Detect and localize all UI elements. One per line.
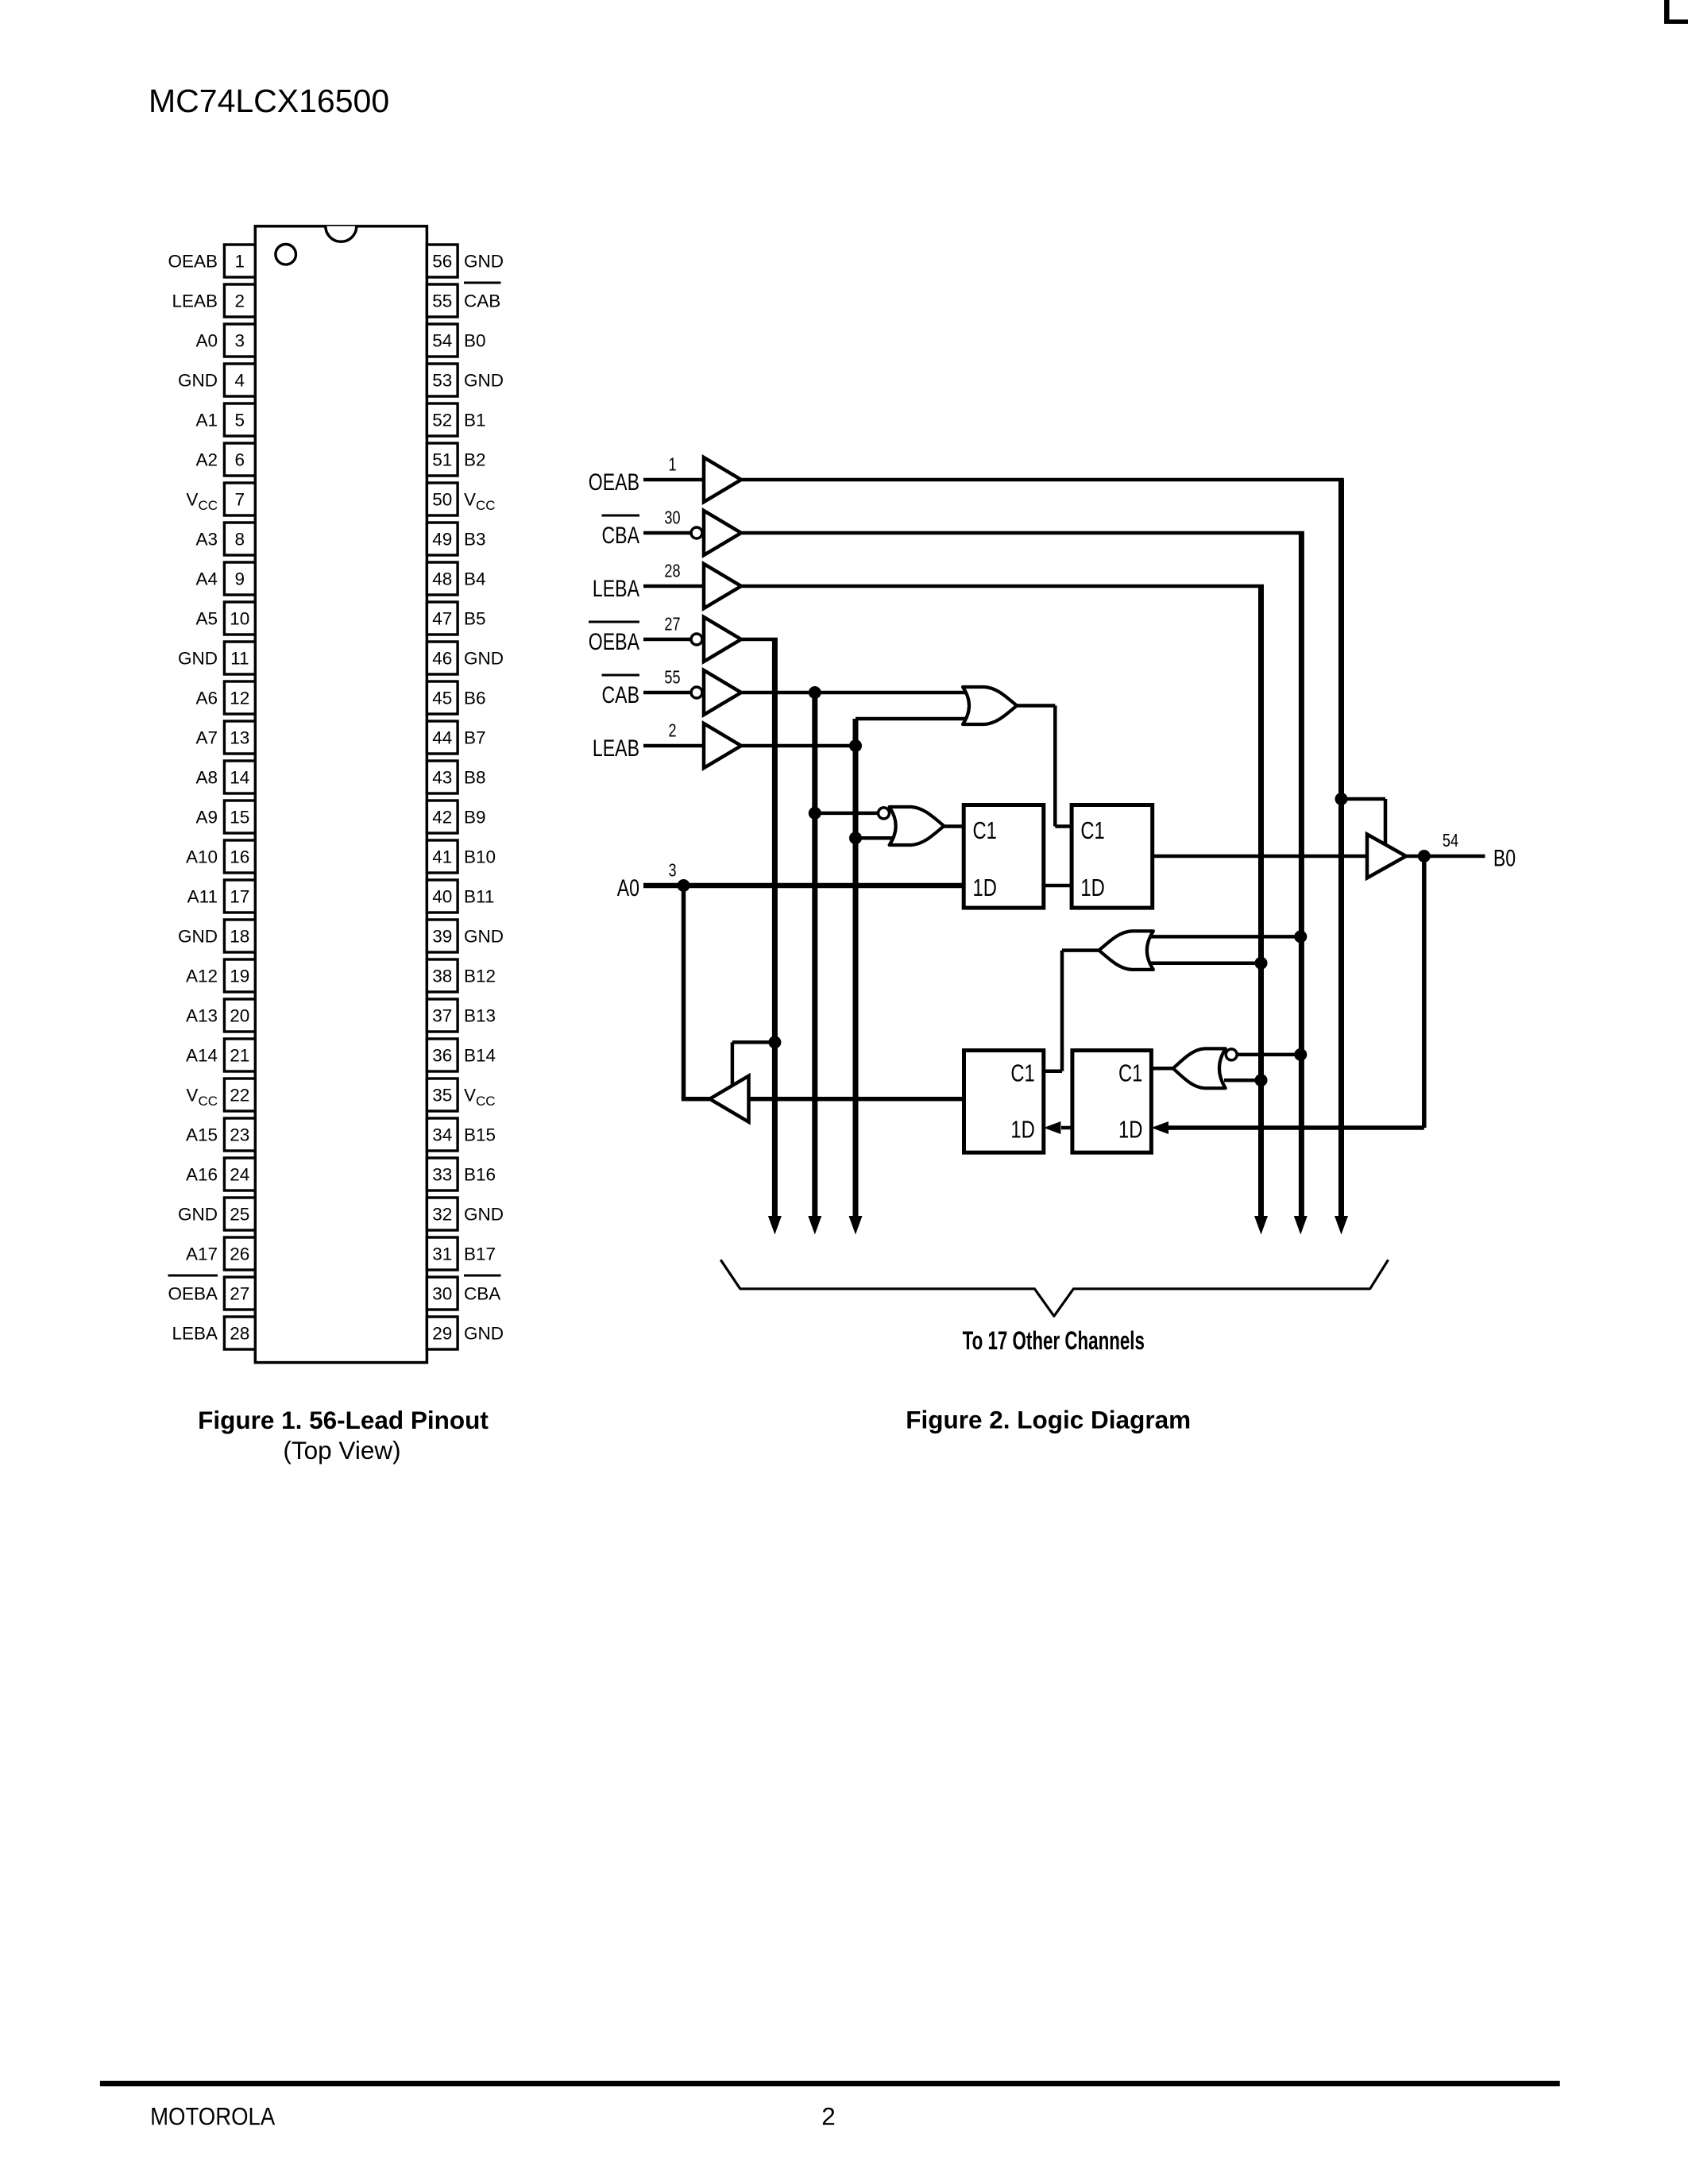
wire LEAB output horizontal (741, 744, 856, 748)
svg-text:B16: B16 (464, 1165, 496, 1185)
svg-text:18: 18 (230, 927, 249, 947)
svg-text:C1: C1 (1118, 1059, 1142, 1087)
pin 43 B8 (right) (427, 761, 485, 793)
wire LEBA vertical bus (1258, 586, 1264, 1219)
junction dot OEAB / output-enable branch (1335, 793, 1348, 805)
pin 10 A5 (left) (195, 602, 255, 635)
svg-text:CBA: CBA (464, 1284, 500, 1304)
svg-text:35: 35 (432, 1086, 452, 1106)
pin 49 B3 (right) (427, 523, 485, 555)
svg-text:VCC: VCC (186, 1086, 218, 1109)
pin 35 VCC (right) (427, 1078, 495, 1111)
pin 11 GND (left) (178, 642, 255, 674)
svg-text:VCC: VCC (464, 1086, 496, 1109)
svg-text:A5: A5 (195, 609, 218, 629)
svg-text:A4: A4 (195, 569, 218, 589)
wire G4 upper input from CBA bus (1238, 1053, 1301, 1057)
svg-text:CAB: CAB (602, 681, 639, 708)
svg-text:46: 46 (432, 649, 452, 669)
svg-text:26: 26 (230, 1244, 249, 1264)
svg-text:B6: B6 (464, 689, 486, 708)
pin 29 GND (right) (427, 1317, 504, 1349)
pin 42 B9 (right) (427, 801, 485, 833)
svg-text:A14: A14 (186, 1046, 218, 1066)
arrow CAB bus to other channels (808, 1216, 821, 1235)
junction dot OEBA / A-enable branch (768, 1036, 781, 1048)
wire LEAB to XNOR G2 lower input (856, 836, 902, 840)
svg-text:27: 27 (230, 1284, 249, 1304)
wire G4 lower input from LEBA bus (1224, 1078, 1261, 1082)
wire feedback to latch L4 1D (1151, 1121, 1423, 1134)
footer rule (100, 2081, 1560, 2086)
footer page number (821, 2102, 836, 2131)
arrow LEAB bus to other channels (849, 1216, 863, 1235)
svg-text:A13: A13 (186, 1006, 218, 1026)
svg-text:49: 49 (432, 530, 452, 550)
svg-text:A0: A0 (617, 874, 639, 901)
svg-text:25: 25 (230, 1205, 249, 1225)
svg-text:3: 3 (235, 331, 245, 351)
svg-text:21: 21 (230, 1046, 249, 1066)
svg-text:GND: GND (464, 927, 504, 947)
pin 32 GND (right) (427, 1198, 504, 1230)
svg-text:Figure 1. 56-Lead Pinout: Figure 1. 56-Lead Pinout (198, 1406, 489, 1434)
pin 34 B15 (right) (427, 1118, 496, 1151)
junction dot CBA to G3 (1294, 930, 1307, 943)
svg-text:24: 24 (230, 1165, 249, 1185)
junction dot LEAB to XNOR G2 (849, 832, 862, 844)
wire B0 output (1406, 855, 1485, 859)
wire CAB to XNOR G2 top input (815, 812, 879, 816)
wire G3 output to latch L3 C1 (1044, 951, 1099, 1071)
svg-text:A12: A12 (186, 967, 218, 986)
pin 50 VCC (right) (427, 483, 495, 515)
input buffer OEAB pin 1 (589, 454, 741, 502)
svg-text:A2: A2 (195, 450, 218, 470)
pin 3 A0 (left) (195, 324, 255, 357)
input buffer CAB pin 55 (602, 667, 742, 715)
svg-text:A6: A6 (195, 689, 218, 708)
svg-text:A11: A11 (187, 887, 218, 907)
svg-text:A17: A17 (186, 1244, 218, 1264)
svg-text:C1: C1 (1010, 1059, 1034, 1087)
output buffer A (tri-state, mirrored) (710, 1076, 749, 1122)
svg-text:B10: B10 (464, 847, 496, 867)
wire CAB output to OR gate G1 (741, 691, 977, 695)
wire CBA vertical bus (1299, 533, 1304, 1219)
wire CAB vertical bus (812, 693, 817, 1219)
arrow OEAB bus to other channels (1335, 1216, 1348, 1235)
svg-text:32: 32 (432, 1205, 452, 1225)
latch L2 (C1/1D) (1072, 805, 1153, 909)
svg-text:16: 16 (230, 847, 249, 867)
input buffer CBA pin 30 (602, 507, 742, 555)
svg-text:OEBA: OEBA (168, 1284, 218, 1304)
svg-text:B7: B7 (464, 728, 486, 748)
junction dot CAB to XNOR G2 (809, 807, 821, 820)
junction dot CAB branch (809, 686, 821, 699)
wire G4 output to latch L4 C1 (1151, 1067, 1172, 1071)
svg-text:B14: B14 (464, 1046, 496, 1066)
svg-text:1D: 1D (1118, 1116, 1142, 1144)
svg-text:A0: A0 (195, 331, 218, 351)
svg-text:A10: A10 (186, 847, 218, 867)
svg-text:9: 9 (235, 569, 245, 589)
pin 8 A3 (left) (195, 523, 255, 555)
input buffer OEBA pin 27 (589, 614, 741, 662)
svg-text:GND: GND (464, 1205, 504, 1225)
svg-text:1D: 1D (973, 874, 997, 901)
pin 30 CBA (right) (427, 1275, 500, 1310)
svg-text:55: 55 (664, 667, 680, 688)
wire LEAB vertical bus (853, 719, 859, 1219)
pin 21 A14 (left) (186, 1039, 255, 1071)
svg-text:LEAB: LEAB (172, 291, 218, 311)
arrow LEBA bus to other channels (1254, 1216, 1268, 1235)
svg-text:40: 40 (432, 887, 452, 907)
pin 17 A11 (left) (187, 880, 256, 913)
OR gate G1 (963, 687, 1017, 724)
svg-text:2: 2 (821, 2102, 836, 2131)
latch L1 (C1/1D) (964, 805, 1044, 909)
svg-text:55: 55 (432, 291, 452, 311)
OR gate G3 (mirrored) (1099, 931, 1153, 970)
bubble on G4 upper input (1226, 1049, 1237, 1060)
output buffer B (tri-state) (1367, 835, 1406, 878)
pin 28 LEBA (left) (172, 1317, 255, 1349)
svg-text:B12: B12 (464, 967, 496, 986)
wire A0 trunk to latch L1 1D (643, 883, 964, 889)
input buffer LEBA pin 28 (593, 561, 741, 608)
svg-text:11: 11 (230, 649, 249, 669)
svg-text:CAB: CAB (464, 291, 500, 311)
svg-text:2: 2 (668, 720, 676, 741)
junction dot LEBA to G4 (1255, 1074, 1268, 1086)
svg-text:A9: A9 (195, 808, 218, 828)
svg-text:43: 43 (432, 768, 452, 788)
pin 22 VCC (left) (186, 1078, 255, 1111)
svg-text:3: 3 (668, 860, 676, 881)
svg-text:50: 50 (432, 490, 452, 510)
svg-text:A8: A8 (195, 768, 218, 788)
pin 46 GND (right) (427, 642, 504, 674)
svg-text:4: 4 (235, 371, 245, 391)
svg-text:22: 22 (230, 1086, 249, 1106)
wire CBA output horizontal (741, 531, 1304, 535)
pin 19 A12 (left) (186, 959, 255, 992)
label B0 pin 54 (1443, 831, 1516, 871)
svg-text:52: 52 (432, 411, 452, 430)
pin 39 GND (right) (427, 920, 504, 952)
svg-text:48: 48 (432, 569, 452, 589)
wire OEBA output horizontal (741, 638, 778, 642)
svg-text:56: 56 (432, 252, 452, 272)
svg-text:A15: A15 (186, 1125, 218, 1145)
svg-text:30: 30 (432, 1284, 452, 1304)
svg-text:2: 2 (235, 291, 245, 311)
svg-text:B1: B1 (464, 411, 486, 430)
pin 38 B12 (right) (427, 959, 496, 992)
svg-text:29: 29 (432, 1324, 452, 1344)
svg-text:37: 37 (432, 1006, 452, 1026)
svg-text:B3: B3 (464, 530, 486, 550)
svg-text:Figure 2. Logic Diagram: Figure 2. Logic Diagram (906, 1406, 1191, 1434)
wire latch L4 to latch L3 1D (1044, 1121, 1072, 1134)
pin 31 B17 (right) (427, 1237, 496, 1270)
pin 23 A15 (left) (186, 1118, 255, 1151)
junction dot LEBA to G3 (1255, 957, 1268, 970)
brace To 17 Other Channels (720, 1260, 1388, 1316)
svg-text:OEAB: OEAB (589, 469, 639, 496)
svg-text:42: 42 (432, 808, 452, 828)
Figure 2 caption (906, 1406, 1191, 1434)
svg-text:MOTOROLA: MOTOROLA (150, 2103, 275, 2131)
pin 2 LEAB (left) (172, 284, 255, 317)
junction dot CBA to G4 (1294, 1048, 1307, 1061)
pin 12 A6 (left) (195, 681, 255, 714)
svg-text:23: 23 (230, 1125, 249, 1145)
svg-text:19: 19 (230, 967, 249, 986)
svg-text:B0: B0 (464, 331, 486, 351)
svg-text:GND: GND (464, 371, 504, 391)
pin 15 A9 (left) (195, 801, 255, 833)
svg-text:LEBA: LEBA (172, 1324, 218, 1344)
pin 7 VCC (left) (186, 483, 255, 515)
wire OEAB enable elbow to B buffer (1342, 799, 1386, 844)
svg-text:41: 41 (432, 847, 452, 867)
svg-text:1D: 1D (1010, 1116, 1034, 1144)
pin 44 B7 (right) (427, 721, 485, 754)
svg-text:45: 45 (432, 689, 452, 708)
svg-text:CBA: CBA (602, 522, 640, 549)
svg-text:B13: B13 (464, 1006, 496, 1026)
svg-text:C1: C1 (973, 816, 997, 844)
svg-text:GND: GND (178, 927, 218, 947)
pin 5 A1 (left) (195, 403, 255, 436)
svg-text:(Top View): (Top View) (283, 1436, 400, 1464)
wire latch L3 output (749, 1097, 964, 1102)
package notch (326, 226, 357, 242)
pin 1 OEAB (left) (168, 245, 255, 277)
svg-text:GND: GND (464, 1324, 504, 1344)
latch L4 (C1/1D mirrored) (1072, 1051, 1152, 1153)
arrow CBA bus to other channels (1294, 1216, 1308, 1235)
wire B0 feedback vertical (1422, 856, 1427, 1128)
XNOR gate G2 (bubbled input OR) (879, 807, 944, 845)
junction dot B0 feedback branch (1418, 850, 1431, 862)
Figure 1 caption line 2 (283, 1436, 400, 1464)
pin 41 B10 (right) (427, 840, 496, 873)
pin 20 A13 (left) (186, 999, 255, 1032)
svg-text:B2: B2 (464, 450, 486, 470)
svg-text:53: 53 (432, 371, 452, 391)
pin 48 B4 (right) (427, 562, 485, 595)
pin 25 GND (left) (178, 1198, 255, 1230)
svg-text:51: 51 (432, 450, 452, 470)
svg-text:B15: B15 (464, 1125, 496, 1145)
wire OEBA enable elbow to A buffer (732, 1042, 775, 1086)
wire LEAB to OR gate G1 lower input (856, 717, 977, 721)
svg-text:B5: B5 (464, 609, 486, 629)
svg-text:OEBA: OEBA (589, 628, 639, 655)
wire OEBA vertical bus (772, 639, 778, 1219)
svg-text:1: 1 (235, 252, 245, 272)
svg-text:GND: GND (464, 649, 504, 669)
pin 1 index dot (276, 245, 296, 265)
svg-text:1: 1 (668, 454, 676, 475)
pin 55 CAB (right) (427, 282, 500, 318)
latch L3 (C1/1D mirrored) (964, 1051, 1044, 1153)
IC package body (255, 226, 427, 1363)
svg-text:B17: B17 (464, 1244, 496, 1264)
wire latch L2 output to B buffer (1153, 855, 1367, 859)
svg-text:28: 28 (664, 561, 680, 581)
svg-text:7: 7 (235, 490, 245, 510)
svg-text:10: 10 (230, 609, 249, 629)
label To 17 Other Channels (963, 1326, 1145, 1355)
pin 52 B1 (right) (427, 403, 485, 436)
svg-text:5: 5 (235, 411, 245, 430)
svg-text:VCC: VCC (186, 490, 218, 514)
pin 56 GND (right) (427, 245, 504, 277)
pin 9 A4 (left) (195, 562, 255, 595)
pin 45 B6 (right) (427, 681, 485, 714)
svg-text:B9: B9 (464, 808, 486, 828)
corner mark top right (1664, 0, 1688, 24)
wire LEBA output horizontal (741, 585, 1264, 588)
Figure 1 caption line 1 (198, 1406, 489, 1434)
pin 51 B2 (right) (427, 443, 485, 476)
svg-text:54: 54 (1443, 831, 1458, 851)
junction dot LEAB branch (849, 739, 862, 752)
XNOR gate G4 (mirrored, bubbled input OR) (1173, 1048, 1226, 1088)
pin 53 GND (right) (427, 364, 504, 396)
wire G1 output to latch L2 C1 (1017, 706, 1072, 827)
pin 36 B14 (right) (427, 1039, 496, 1071)
pin 27 OEBA (left) (168, 1275, 255, 1310)
wire G2 output to latch L1 C1 (944, 824, 964, 828)
svg-text:15: 15 (230, 808, 249, 828)
svg-text:36: 36 (432, 1046, 452, 1066)
pin 4 GND (left) (178, 364, 255, 396)
footer MOTOROLA (150, 2103, 275, 2131)
pin 14 A8 (left) (195, 761, 255, 793)
pin 18 GND (left) (178, 920, 255, 952)
arrow OEBA bus to other channels (768, 1216, 782, 1235)
svg-text:12: 12 (230, 689, 249, 708)
pin 6 A2 (left) (195, 443, 255, 476)
wire A buffer output to A0 node (682, 886, 710, 1099)
svg-text:30: 30 (664, 507, 680, 528)
svg-text:LEAB: LEAB (593, 735, 639, 762)
svg-text:17: 17 (230, 887, 249, 907)
wire G3 upper input from CBA bus (1150, 935, 1300, 939)
svg-text:8: 8 (235, 530, 245, 550)
svg-text:VCC: VCC (464, 490, 496, 514)
svg-text:B4: B4 (464, 569, 486, 589)
pin 24 A16 (left) (186, 1158, 255, 1190)
svg-text:C1: C1 (1080, 816, 1104, 844)
svg-text:44: 44 (432, 728, 452, 748)
svg-text:31: 31 (432, 1244, 452, 1264)
svg-text:GND: GND (464, 252, 504, 272)
title MC74LCX16500 (149, 83, 389, 119)
pin 54 B0 (right) (427, 324, 485, 357)
svg-text:6: 6 (235, 450, 245, 470)
svg-text:39: 39 (432, 927, 452, 947)
svg-text:38: 38 (432, 967, 452, 986)
pin 47 B5 (right) (427, 602, 485, 635)
svg-text:28: 28 (230, 1324, 249, 1344)
svg-text:A1: A1 (195, 411, 218, 430)
svg-text:1D: 1D (1080, 874, 1104, 901)
svg-text:To 17 Other Channels: To 17 Other Channels (963, 1326, 1145, 1355)
pin 37 B13 (right) (427, 999, 496, 1032)
pin 26 A17 (left) (186, 1237, 255, 1270)
svg-text:A16: A16 (186, 1165, 218, 1185)
wire OEAB output horizontal (741, 478, 1344, 482)
pin 13 A7 (left) (195, 721, 255, 754)
svg-text:27: 27 (664, 614, 680, 635)
pin 33 B16 (right) (427, 1158, 496, 1190)
svg-text:A7: A7 (195, 728, 218, 748)
wire OEAB vertical bus (1338, 480, 1344, 1219)
svg-text:33: 33 (432, 1165, 452, 1185)
wire G3 lower input from LEBA bus (1150, 961, 1261, 965)
svg-text:54: 54 (432, 331, 452, 351)
svg-text:13: 13 (230, 728, 249, 748)
svg-text:20: 20 (230, 1006, 249, 1026)
svg-text:14: 14 (230, 768, 249, 788)
input buffer LEAB pin 2 (593, 720, 741, 768)
svg-text:34: 34 (432, 1125, 452, 1145)
junction dot A0 feedback branch (678, 879, 690, 892)
wire latch L1 to latch L2 1D (1044, 884, 1072, 888)
svg-text:GND: GND (178, 649, 218, 669)
svg-text:B11: B11 (464, 887, 494, 907)
svg-text:47: 47 (432, 609, 452, 629)
svg-text:GND: GND (178, 1205, 218, 1225)
svg-text:A3: A3 (195, 530, 218, 550)
pin 16 A10 (left) (186, 840, 255, 873)
svg-text:OEAB: OEAB (168, 252, 218, 272)
svg-text:LEBA: LEBA (593, 575, 639, 602)
svg-text:GND: GND (178, 371, 218, 391)
svg-text:B8: B8 (464, 768, 486, 788)
svg-text:B0: B0 (1493, 845, 1516, 872)
pin 40 B11 (right) (427, 880, 494, 913)
svg-text:MC74LCX16500: MC74LCX16500 (149, 83, 389, 119)
label A0 pin 3 (617, 860, 677, 901)
